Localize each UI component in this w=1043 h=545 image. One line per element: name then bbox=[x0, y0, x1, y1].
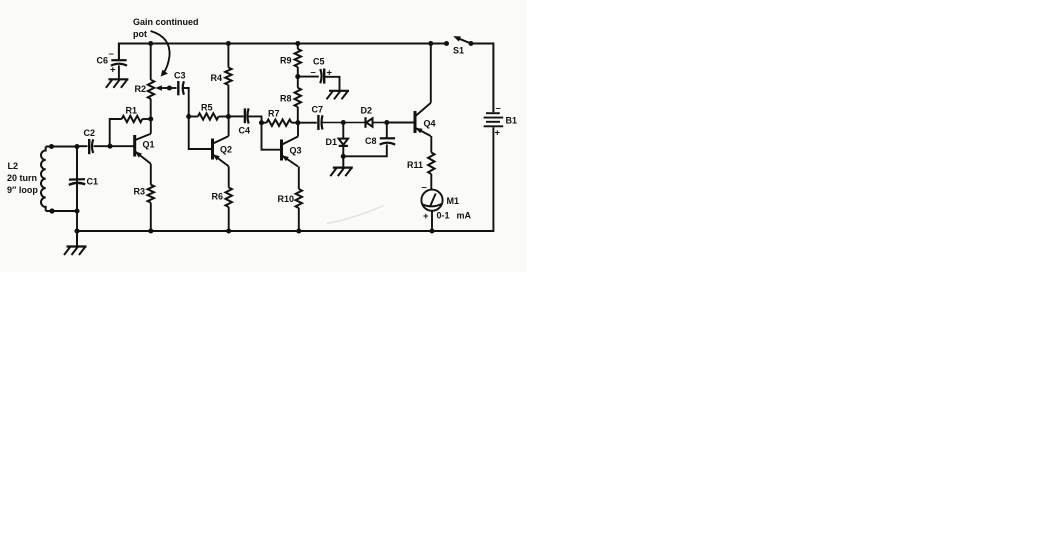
battery B1 bbox=[486, 112, 500, 114]
node: R6 bottom rail junction bbox=[226, 228, 231, 233]
meter M1 (0-1 mA) bbox=[421, 190, 442, 211]
svg-text:–: – bbox=[496, 103, 501, 114]
node: bottom rail left junction bbox=[74, 228, 79, 233]
resistor R6 (Q2 emitter) bbox=[226, 188, 232, 208]
node: D1 cathode junction bbox=[341, 154, 346, 159]
diode D2 (detector, series) bbox=[343, 122, 365, 124]
wire: Q2 emitter down to R6 bbox=[228, 166, 230, 187]
svg-text:Q2: Q2 bbox=[220, 145, 232, 155]
svg-text:D2: D2 bbox=[361, 106, 373, 116]
svg-text:+: + bbox=[423, 211, 429, 222]
capacitor C4 (coupling to Q3) bbox=[228, 115, 243, 117]
node: coil bottom terminal bbox=[49, 208, 54, 213]
svg-text:C7: C7 bbox=[312, 105, 324, 115]
capacitor C1 (tuning) bbox=[69, 178, 85, 181]
svg-text:D1: D1 bbox=[326, 137, 338, 147]
switch S1 bbox=[444, 41, 449, 46]
svg-text:Gain continued: Gain continued bbox=[133, 17, 199, 27]
capacitor C2 (input coupling) bbox=[88, 139, 90, 154]
svg-text:C1: C1 bbox=[87, 177, 99, 187]
svg-text:B1: B1 bbox=[506, 116, 518, 126]
inductor L2 (20 turn 9" loop antenna) bbox=[41, 147, 46, 212]
svg-text:9″ loop: 9″ loop bbox=[7, 185, 38, 195]
svg-text:R4: R4 bbox=[211, 73, 223, 83]
wiper arrow of R2 bbox=[160, 87, 170, 89]
svg-text:C4: C4 bbox=[239, 126, 251, 136]
resistor R3 (Q1 emitter) bbox=[148, 185, 154, 203]
svg-text:R8: R8 bbox=[280, 94, 292, 104]
capacitor C5 (decoupling, electrolytic) bbox=[298, 76, 319, 78]
svg-text:C6: C6 bbox=[97, 56, 109, 66]
svg-text:L2: L2 bbox=[8, 161, 19, 171]
(faint scan artifact arc) bbox=[327, 206, 384, 224]
svg-text:S1: S1 bbox=[453, 46, 464, 56]
resistor R10 (Q3 emitter) bbox=[296, 189, 302, 208]
capacitor C8 (RF filter) bbox=[386, 123, 388, 139]
svg-text:C2: C2 bbox=[84, 128, 96, 138]
wire: Q1 emitter to R3 bbox=[150, 164, 152, 185]
resistor R8 bbox=[297, 77, 299, 88]
svg-text:R2: R2 bbox=[135, 84, 147, 94]
wire: D2 node to Q4 base bbox=[387, 122, 415, 124]
svg-text:mA: mA bbox=[457, 211, 472, 221]
node: base line / R1 junction bbox=[107, 144, 112, 149]
svg-text:+: + bbox=[327, 68, 333, 79]
node: coil top terminal bbox=[49, 144, 54, 149]
wire: Q4 emitter down to R11 bbox=[430, 136, 432, 153]
capacitor C6 (supply bypass) bbox=[118, 44, 120, 59]
wire: Q3 collector up to R8 node bbox=[297, 123, 299, 137]
ground (below C5) bbox=[327, 90, 350, 99]
scanned paper background bbox=[0, 0, 527, 272]
svg-text:R7: R7 bbox=[268, 109, 280, 119]
node: R3 bottom rail junction bbox=[148, 228, 153, 233]
wire: top rail right segment S1 to battery bbox=[471, 44, 493, 113]
potentiometer R2 (gain control) bbox=[150, 44, 152, 80]
resistor R9 (supply dropper) bbox=[297, 44, 299, 50]
svg-text:C3: C3 bbox=[174, 71, 186, 81]
svg-text:M1: M1 bbox=[447, 196, 460, 206]
ground (left, below L2/C1) bbox=[64, 231, 87, 255]
transistor Q2 bbox=[213, 136, 229, 166]
svg-text:Q4: Q4 bbox=[424, 119, 436, 129]
svg-text:R6: R6 bbox=[212, 192, 224, 202]
capacitor C7 (coupling to detector) bbox=[298, 122, 317, 124]
svg-text:–: – bbox=[422, 182, 427, 193]
wire: Q2 collector up to R4 node bbox=[228, 117, 230, 137]
wire: Q1 collector bbox=[150, 119, 152, 134]
svg-text:R1: R1 bbox=[126, 106, 138, 116]
transistor Q4 bbox=[415, 103, 431, 136]
node: R1/R2/Q1-collector junction bbox=[148, 116, 153, 121]
node: C1 bottom junction bbox=[74, 208, 79, 213]
capacitor C3 (coupling to Q2) bbox=[169, 87, 176, 89]
resistor R1 (Q1 feedback) bbox=[110, 119, 122, 146]
node: meter bottom rail junction bbox=[429, 228, 434, 233]
resistor R7 (Q3 feedback) bbox=[262, 122, 267, 124]
svg-text:R3: R3 bbox=[134, 187, 146, 197]
wire: Q3 emitter down to R10 bbox=[298, 167, 300, 190]
node: D2/C8/Q4-base junction bbox=[384, 120, 389, 125]
svg-text:C8: C8 bbox=[365, 136, 377, 146]
resistor R5 (Q2 feedback) bbox=[189, 116, 198, 118]
node: R9/R8/C5 junction bbox=[295, 74, 300, 79]
transistor Q3 bbox=[282, 137, 299, 167]
node: rail junction above Q4 bbox=[428, 41, 433, 46]
svg-text:20 turn: 20 turn bbox=[7, 173, 37, 183]
node: C7/D1/D2 junction bbox=[341, 120, 346, 125]
svg-text:+: + bbox=[110, 65, 116, 76]
svg-text:pot: pot bbox=[133, 29, 147, 39]
svg-text:0-1: 0-1 bbox=[437, 211, 450, 221]
node: rail junction above R9 bbox=[295, 41, 300, 46]
resistor R4 (Q2 collector load) bbox=[227, 44, 229, 68]
ground (below C6) bbox=[106, 79, 128, 88]
svg-text:Q1: Q1 bbox=[143, 140, 155, 150]
wire: coil top to C1 node bbox=[46, 146, 77, 148]
node: R10 bottom rail junction bbox=[296, 228, 301, 233]
svg-text:R5: R5 bbox=[201, 103, 213, 113]
wire: R7 left node down to Q3 base bbox=[262, 123, 282, 150]
svg-text:+: + bbox=[495, 128, 501, 139]
wire: bottom ground rail bbox=[77, 127, 493, 231]
svg-text:R10: R10 bbox=[278, 194, 295, 204]
resistor R11 (meter series) bbox=[428, 153, 434, 175]
diode D1 (detector, to ground) bbox=[342, 123, 344, 139]
wire: top supply rail (left of S1) bbox=[119, 44, 447, 61]
svg-text:C5: C5 bbox=[313, 57, 325, 67]
node: C4/R7/Q3-base junction bbox=[259, 120, 264, 125]
node: wiper tail bbox=[167, 85, 172, 90]
wire: Q1 base line from C1 node through C2 bbox=[77, 145, 88, 147]
node: R5 left junction bbox=[186, 114, 191, 119]
node: rail junction above R4 bbox=[226, 41, 231, 46]
svg-text:R9: R9 bbox=[280, 56, 292, 66]
svg-text:R11: R11 bbox=[407, 160, 423, 170]
svg-text:–: – bbox=[311, 67, 316, 78]
svg-text:–: – bbox=[109, 49, 114, 60]
ground (below D1) bbox=[330, 156, 353, 176]
wire: C3 node down to Q2 base bbox=[189, 117, 213, 150]
node: C1 top junction bbox=[74, 144, 79, 149]
wire: C1 leads bbox=[76, 147, 78, 179]
svg-text:Q3: Q3 bbox=[290, 146, 302, 156]
node: R4/R5/C4 junction bbox=[226, 114, 231, 119]
node: rail junction above R2 bbox=[148, 41, 153, 46]
wire: Q4 collector up to rail bbox=[430, 44, 432, 103]
transistor Q1 bbox=[135, 134, 151, 164]
wire: coil bottom to C1 node bbox=[46, 210, 77, 212]
node: R7/R8/C7/Q3-collector junction bbox=[295, 120, 300, 125]
